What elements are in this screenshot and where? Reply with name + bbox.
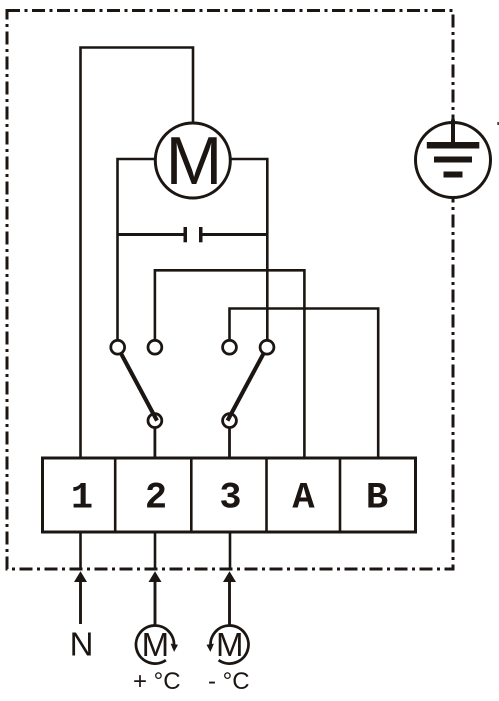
arrow into terminal 1 (N feed) [74,571,87,624]
ground (protective earth in circle on frame) [416,120,491,198]
wire switch1 throw-2 up and right, down to terminal A [155,270,305,459]
terminal divider 3|A [265,458,268,532]
svg-text:M: M [142,626,170,663]
switch S1 contact (to terminal A branch) [148,340,162,354]
svg-text:- °C: - °C [208,668,250,695]
svg-text:3: 3 [219,478,241,520]
wire terminal 2 bottom stub [154,532,157,568]
motor M1 [155,123,230,199]
svg-text:1: 1 [71,478,93,520]
wire terminal 1 bottom stub [79,532,82,568]
terminal divider 2|3 [190,458,193,532]
edge tick right margin [497,122,499,125]
wire switch S2 common to terminal 3 [228,428,231,460]
switch S1 common contact [148,414,162,428]
switch S1 lever [121,354,157,421]
switch S2 common contact [223,414,237,428]
wire N: terminal 1 up, across, down to motor top [81,48,194,460]
svg-text:M: M [166,123,223,199]
svg-text:N: N [70,626,94,663]
svg-text:2: 2 [145,478,167,520]
enclosure frame (dash-dot boundary) [7,11,453,570]
wire switch2 throw-3 up and right, down to terminal B [230,309,379,460]
wire terminal 3 bottom stub [229,532,232,568]
wire switch S1 common to terminal 2 [153,428,156,460]
svg-text:M: M [216,626,244,663]
switch S2 lever [228,354,264,421]
motor symbol M counter-clockwise (- °C drive) [207,626,249,664]
wire motor left to node x117.5 down to switch contact [118,159,156,341]
svg-text:B: B [366,478,388,520]
capacitor C1 [118,227,268,242]
arrow into terminal 3 (motor - direction feed) [223,571,236,626]
switch S2 contact (from motor right) [260,340,274,354]
svg-text:A: A [292,478,315,520]
switch S2 contact (to terminal B branch) [223,340,237,354]
arrow into terminal 2 (motor + direction feed) [149,571,162,626]
terminal divider 1|2 [114,458,117,532]
switch S1 contact (from motor left) [111,340,125,354]
wire motor right to node x267 down to switch contact [230,159,267,341]
svg-text:+ °C: + °C [133,668,181,695]
motor symbol M clockwise (+ °C drive) [136,626,178,664]
terminal divider A|B [339,458,342,532]
terminal block outline [43,458,416,532]
